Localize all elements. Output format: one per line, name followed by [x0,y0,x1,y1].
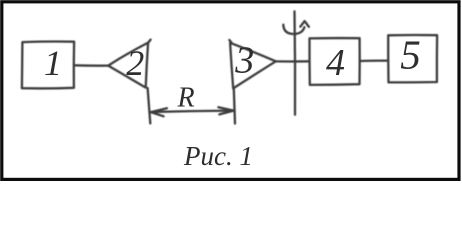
wire from block 1 to antenna 2 [74,64,108,67]
wire from block 4 to block 5 [360,59,388,62]
horn antenna 2 (triangle) [108,43,148,88]
block 4 (detector box) [309,38,359,85]
svg-text:3: 3 [234,39,254,81]
block 1 (generator box) [22,42,74,89]
svg-text:Рис. 1: Рис. 1 [183,141,253,171]
svg-text:1: 1 [44,43,62,83]
horn antenna 3 (triangle) [230,43,276,89]
block 5 (indicator box) [388,35,437,82]
extension line below antenna 3 [234,89,235,124]
dimension arrow R (double-headed) [151,107,234,116]
rotation axis (vertical line) [293,11,296,114]
svg-text:5: 5 [400,32,421,78]
rotation arrow (curved arc with head) [283,21,309,34]
svg-text:R: R [176,82,194,113]
corner spur on antenna 3 [229,40,231,42]
corner spur on antenna 2 [148,40,151,44]
svg-text:2: 2 [126,43,144,83]
extension line below antenna 2 [148,88,151,123]
wire from antenna 3 to block 4 [276,60,309,62]
svg-text:4: 4 [326,42,345,84]
